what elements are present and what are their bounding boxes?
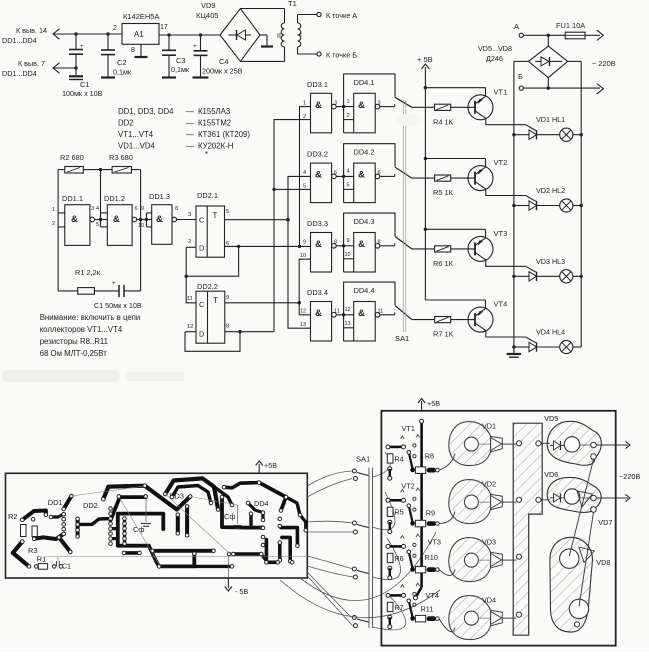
svg-text:КТ361 (КТ209): КТ361 (КТ209) — [198, 130, 250, 139]
svg-text:коллекторов VT1...VT4: коллекторов VT1...VT4 — [40, 325, 123, 334]
thin jumper wires left board — [45, 556, 306, 558]
thyristor pad VD2 pcb — [449, 480, 491, 524]
svg-text:К155ТМ2: К155ТМ2 — [198, 119, 231, 128]
wire to resistor R7 — [412, 319, 435, 321]
svg-text:R6: R6 — [394, 554, 403, 563]
wire routing box DD4.1 — [344, 74, 395, 133]
ground — [162, 76, 176, 78]
switch SA1 body lines — [368, 468, 370, 628]
pcb trace mid bus y566 ext — [194, 565, 232, 568]
pcb trace DD1 pin1 feed — [64, 496, 72, 509]
svg-text:II: II — [277, 33, 281, 40]
capacitor C2 — [106, 32, 109, 35]
wire R9 to VD2 — [439, 512, 455, 524]
pcb trace inner roof — [111, 497, 146, 520]
pcb trace DD2 right col — [123, 519, 126, 544]
svg-text:10: 10 — [345, 252, 351, 258]
capacitor C1 — [75, 34, 77, 49]
svg-text:R4 1К: R4 1К — [433, 117, 454, 126]
svg-text:C1: C1 — [80, 80, 90, 89]
svg-text:КЦ405: КЦ405 — [196, 11, 218, 20]
pcb trace Cf1 rect — [118, 514, 164, 546]
svg-text:DD4: DD4 — [254, 499, 269, 508]
wire routing box DD4.3 — [344, 213, 395, 272]
wire anode VD1 — [514, 134, 529, 136]
wire bridge right to right rail — [568, 60, 582, 62]
svg-text:R1: R1 — [37, 555, 46, 564]
wire to resistor R6 — [412, 248, 435, 250]
svg-text:VD9: VD9 — [201, 1, 216, 10]
svg-text:T: T — [213, 211, 218, 220]
wire collector VT1 — [475, 111, 486, 119]
wire DD4.4 out to switch contact — [380, 314, 395, 316]
svg-text:VD5...VD8: VD5...VD8 — [478, 44, 512, 53]
resistor R7 — [435, 317, 451, 323]
svg-text:VT4: VT4 — [426, 591, 439, 600]
svg-text:&: & — [315, 239, 322, 250]
resistor R6 — [435, 246, 451, 252]
svg-text:2: 2 — [188, 239, 191, 245]
svg-text:R8: R8 — [425, 452, 434, 461]
wire R6 to base VT3 — [451, 248, 475, 250]
wire DD4.1 out to switch contact — [380, 106, 395, 108]
interconnect wires long arcs — [280, 580, 440, 618]
wire DD3.3 out to DD4.3 — [336, 245, 354, 247]
pcb trace DD4 feed — [261, 513, 264, 520]
svg-text:С1 50мк x 10В: С1 50мк x 10В — [94, 301, 142, 310]
svg-text:0,1мк: 0,1мк — [113, 68, 132, 77]
pads VD6 — [591, 495, 597, 501]
svg-text:10: 10 — [300, 253, 306, 259]
wire gate VD1 — [526, 125, 536, 131]
svg-text:VT2: VT2 — [494, 158, 508, 167]
capacitor C4 — [199, 33, 202, 36]
svg-text:3: 3 — [188, 212, 191, 218]
svg-text:&: & — [315, 100, 322, 111]
svg-text:&: & — [315, 308, 322, 319]
wire DD2.2 Qbar out pin8 — [225, 331, 274, 333]
svg-text:SA1: SA1 — [395, 334, 409, 343]
svg-text:9: 9 — [303, 240, 306, 246]
svg-text:FU1 10А: FU1 10А — [556, 21, 585, 30]
wire gate VD4 — [526, 337, 536, 343]
svg-text:13: 13 — [345, 321, 351, 327]
svg-text:1: 1 — [347, 99, 350, 105]
switch SA1 section 1 — [395, 97, 412, 107]
wire DD2.2 Q out pin9 — [225, 302, 299, 304]
wire emitter VT2 to +5V rail — [425, 158, 485, 160]
component C1 pcb — [56, 561, 58, 566]
component R1 pcb — [38, 564, 47, 570]
svg-text:VT3: VT3 — [494, 229, 508, 238]
pads R7 — [388, 615, 392, 619]
svg-text:VT2: VT2 — [401, 482, 414, 491]
pcb trace DD4 area v3 — [278, 543, 282, 561]
svg-text:DD2: DD2 — [83, 501, 98, 510]
capacitor Cf1 symbol — [145, 499, 147, 522]
svg-text:5: 5 — [303, 184, 306, 190]
svg-text:—: — — [186, 107, 194, 116]
component R4 pcb — [387, 454, 393, 463]
diagonal wire VD5 to VD8 — [569, 459, 593, 556]
svg-text:17: 17 — [160, 24, 168, 31]
svg-text:DD1.2: DD1.2 — [104, 194, 125, 203]
wire DD2.1 feedback — [186, 246, 238, 276]
pcb trace DD1 stub — [51, 514, 64, 517]
svg-text:9: 9 — [141, 206, 144, 212]
svg-text:3: 3 — [91, 206, 94, 212]
diode VD8 symbol — [579, 547, 595, 563]
svg-text:SA1: SA1 — [356, 455, 370, 464]
wire B to mains — [523, 87, 600, 89]
wire oscillator top rail — [58, 169, 65, 171]
thyristor pad VD4 pcb — [449, 596, 491, 640]
svg-text:+: + — [80, 44, 84, 50]
svg-text:R5 1К: R5 1К — [433, 188, 454, 197]
svg-text:T: T — [213, 296, 218, 305]
capacitor C3 — [167, 33, 170, 36]
svg-text:—: — — [186, 142, 194, 151]
thyristor pad VD3 pcb — [449, 538, 491, 582]
wire winding I to point A — [297, 15, 299, 24]
svg-text:VT1...VT4: VT1...VT4 — [118, 130, 154, 139]
pcb trace mid jumper — [124, 551, 140, 555]
pcb trace DD3 vertical 2 — [185, 506, 189, 535]
svg-text:0,1мк: 0,1мк — [171, 65, 190, 74]
pcb trace DD3 M shape — [165, 478, 218, 509]
svg-text:4: 4 — [347, 169, 350, 175]
svg-text:C3: C3 — [176, 56, 186, 65]
pcb trace plus5 entry right — [259, 483, 286, 511]
svg-text:C4: C4 — [219, 57, 229, 66]
wire HL2 to right rail — [573, 205, 581, 207]
pcb trace DD4 top hook — [286, 497, 300, 515]
svg-text:R9: R9 — [426, 509, 435, 518]
wire R3 right to C1 row — [140, 170, 142, 291]
svg-text:DD1: DD1 — [48, 498, 63, 507]
wire DD2.2 feedback — [185, 332, 240, 352]
switch SA1 section 2 — [395, 167, 412, 178]
wire VD1 to heatsink — [478, 443, 490, 445]
thyristor pad VD1 pcb — [449, 422, 491, 466]
pcb trace mid bus y551 — [153, 549, 214, 553]
wire VD6 pad link — [580, 497, 591, 499]
pcb trace bottom right link — [261, 554, 267, 562]
component R7 pcb — [387, 602, 393, 611]
svg-text:VD3 HL3: VD3 HL3 — [536, 257, 565, 266]
svg-text:Т1: Т1 — [288, 0, 297, 8]
pcb trace DD1 to R3 — [34, 534, 64, 539]
svg-text:R4: R4 — [394, 454, 403, 463]
wire bridge left to left rail — [514, 60, 529, 62]
svg-text:DD3.1: DD3.1 — [307, 80, 328, 89]
wire VD6 out arrow — [596, 497, 628, 499]
svg-text:8: 8 — [131, 47, 135, 54]
svg-text:10: 10 — [138, 223, 144, 229]
pcb trace R3 to diag — [59, 537, 70, 552]
svg-text:&: & — [358, 308, 365, 319]
svg-text:R3 680: R3 680 — [109, 153, 133, 162]
wire A1 output — [159, 34, 220, 36]
wire bus to DD3.2 pin5 — [274, 188, 311, 190]
svg-text:—: — — [186, 119, 194, 128]
svg-text:VT4: VT4 — [494, 300, 508, 309]
svg-text:8: 8 — [175, 206, 178, 212]
pads R6 — [388, 566, 392, 570]
wire anode VD2 — [514, 205, 529, 207]
switch SA1 linkage — [402, 100, 404, 332]
component R5 pcb — [387, 507, 393, 516]
wire collector VT2 — [475, 182, 486, 190]
ground — [101, 76, 115, 78]
wire gate VD3 — [526, 266, 536, 272]
pcb trace DD2 stubs — [111, 527, 118, 530]
-5V arrow left board — [227, 578, 229, 588]
svg-text:DD3.3: DD3.3 — [307, 219, 328, 228]
svg-text:D: D — [199, 244, 205, 253]
svg-text:12: 12 — [187, 324, 193, 330]
pcb trace R2 top — [22, 511, 46, 520]
triangle VD2 pcb — [491, 494, 503, 509]
svg-text:R7 1К: R7 1К — [433, 330, 454, 339]
wire A to bridge top — [547, 35, 549, 46]
svg-text:- 5В: - 5В — [235, 587, 248, 596]
svg-text:C: C — [199, 216, 205, 225]
pads VD5 — [591, 442, 597, 448]
wire bus Qbar1 — [300, 107, 311, 247]
pcb board left outline — [6, 473, 308, 578]
switch SA1 contact pair — [352, 521, 356, 525]
heatsink holes — [516, 441, 521, 446]
transistor VT4 pcb leads — [409, 601, 413, 617]
svg-text:4: 4 — [303, 170, 306, 176]
lamp HL4 — [537, 346, 560, 348]
wire fuse to mains — [585, 34, 600, 36]
svg-text:R11: R11 — [421, 605, 434, 614]
svg-text:VT1: VT1 — [402, 424, 415, 433]
svg-text:+5В: +5В — [264, 461, 277, 470]
svg-text:R6 1К: R6 1К — [433, 259, 454, 268]
wire +5V top rail — [54, 33, 122, 35]
svg-text:DD4.1: DD4.1 — [354, 78, 375, 87]
+5V arrow right board — [421, 401, 423, 411]
svg-text:5: 5 — [347, 183, 350, 189]
svg-text:6: 6 — [135, 206, 138, 212]
svg-text:DD2: DD2 — [118, 119, 134, 128]
svg-text:*: * — [205, 150, 208, 159]
svg-text:R5: R5 — [394, 508, 403, 517]
svg-text:резисторы R8..R11: резисторы R8..R11 — [40, 337, 108, 346]
scan artifact band — [2, 370, 120, 382]
svg-text:VD2: VD2 — [482, 480, 496, 489]
wire R11 to VD4 — [439, 619, 455, 632]
svg-text:&: & — [358, 100, 365, 111]
svg-text:R2: R2 — [8, 512, 17, 521]
switch SA1 contact pair — [352, 469, 356, 473]
lamp HL3 — [537, 275, 560, 277]
wire to DD2.2 C — [186, 276, 196, 303]
pcb pads left board — [21, 518, 25, 522]
svg-text:~ 220В: ~ 220В — [592, 59, 616, 68]
triangle VD4 pcb — [491, 610, 503, 625]
svg-text:К точке Б: К точке Б — [326, 51, 357, 60]
wire anode VD3 — [514, 275, 529, 277]
capacitor C1 oscillator — [94, 290, 119, 292]
wire gnd rail — [54, 67, 76, 69]
wire DD1.1 out to DD1.2 — [95, 219, 108, 221]
svg-text:Сф: Сф — [133, 525, 144, 534]
wire collector VT3 — [475, 252, 486, 260]
wire VD3 to heatsink — [478, 559, 490, 561]
svg-text:9: 9 — [347, 238, 350, 244]
svg-text:+5В: +5В — [427, 399, 440, 408]
svg-text:&: & — [113, 214, 120, 225]
wire DD1.3 out to DD2.1 C — [177, 219, 196, 221]
diode VD7 symbol — [577, 491, 593, 507]
svg-text:12: 12 — [345, 307, 351, 313]
switch SA1 contact pair — [352, 567, 356, 571]
triangle VD3 pcb — [491, 552, 503, 567]
pcb trace left V zigzag — [13, 542, 29, 567]
diode pad VD5 pcb — [547, 421, 601, 465]
wire HL3 to right rail — [573, 275, 581, 277]
wire DD2.1 D input — [186, 246, 196, 248]
component jumper ch3 — [389, 545, 402, 548]
svg-text:1: 1 — [52, 207, 55, 213]
svg-text:11: 11 — [187, 296, 193, 302]
pcb trace DD3 vertical 1 — [176, 515, 180, 534]
wire DD2.1 Qbar out pin6 — [225, 245, 311, 247]
svg-text:5: 5 — [96, 222, 99, 228]
svg-text:DD3.4: DD3.4 — [307, 288, 328, 297]
diode symbol VD6 — [550, 497, 554, 499]
svg-text:DD1.3: DD1.3 — [149, 192, 170, 201]
component R2 pcb — [21, 525, 27, 537]
ground — [69, 75, 83, 77]
wire R7 to base VT4 — [451, 319, 475, 321]
svg-text:68 Ом МЛТ-0,25Вт: 68 Ом МЛТ-0,25Вт — [40, 349, 108, 358]
wire to resistor R4 — [412, 106, 435, 108]
wire anode VD4 — [514, 346, 529, 348]
svg-text:А: А — [514, 22, 519, 31]
svg-text:+: + — [112, 281, 116, 287]
lamp HL2 — [537, 205, 560, 207]
wire emitter VT1 to +5V rail — [425, 87, 485, 89]
heatsink bar pcb — [513, 423, 542, 635]
wire routing box DD4.4 — [344, 282, 395, 341]
lamp HL1 — [537, 134, 560, 136]
svg-text:C2: C2 — [117, 58, 127, 67]
svg-text:VD3: VD3 — [482, 538, 496, 547]
pcb trace DD3 right diag — [214, 487, 232, 505]
svg-text:VD1 HL1: VD1 HL1 — [536, 115, 565, 124]
wire to resistor R5 — [412, 177, 435, 179]
svg-text:К142ЕН5А: К142ЕН5А — [123, 12, 159, 21]
svg-text:Б: Б — [518, 72, 523, 81]
wire heatsink to VD6 — [541, 499, 550, 501]
switch SA1 section 4 — [395, 306, 412, 320]
wire HL4 to right rail — [573, 346, 581, 348]
wire bus Q1 — [288, 176, 311, 328]
ground — [507, 353, 521, 355]
svg-text:DD2.1: DD2.1 — [197, 191, 218, 200]
component R6 pcb — [387, 553, 393, 562]
+5V arrow left board — [258, 464, 260, 473]
svg-text:DD4.2: DD4.2 — [354, 148, 375, 157]
svg-text:VD4: VD4 — [482, 596, 496, 605]
svg-text:200мк x 25В: 200мк x 25В — [202, 67, 243, 76]
pcb trace DD4 area v4 — [266, 540, 277, 563]
pcb trace DD1 inner vertical — [76, 519, 80, 537]
svg-text:I: I — [300, 32, 302, 39]
svg-text:4: 4 — [96, 206, 99, 212]
svg-text:К155ЛА3: К155ЛА3 — [198, 107, 230, 116]
svg-text:R10: R10 — [425, 553, 438, 562]
svg-text:DD1, DD3, DD4: DD1, DD3, DD4 — [118, 107, 174, 116]
svg-text:DD4.3: DD4.3 — [354, 217, 375, 226]
wire R10 to VD3 — [439, 570, 455, 576]
svg-text:—: — — [186, 130, 194, 139]
pcb trace DD1-DD2 link — [78, 519, 111, 525]
wire bridge to transformer top — [240, 8, 284, 10]
svg-text:13: 13 — [300, 322, 306, 328]
pcb trace DD3-DD4 diag — [248, 503, 263, 513]
svg-text:2: 2 — [347, 113, 350, 119]
switch SA1 section 3 — [395, 237, 412, 249]
svg-text:К выв. 14: К выв. 14 — [16, 26, 47, 35]
svg-text:VD6: VD6 — [544, 470, 558, 479]
ground — [135, 56, 148, 58]
wire DD2.1 Q out pin5 — [225, 219, 289, 221]
pcb trace DD4 area g1 — [281, 528, 298, 546]
component R3 pcb — [32, 526, 37, 537]
pads R5 — [388, 520, 392, 524]
pcb board right outline — [381, 411, 615, 646]
pcb trace bottom right bar — [233, 552, 259, 556]
svg-text:C: C — [199, 300, 205, 309]
ground — [193, 76, 209, 78]
svg-text:&: & — [315, 170, 322, 181]
wire DD4.3 out to switch contact — [380, 245, 395, 247]
svg-text:DD1...DD4: DD1...DD4 — [2, 36, 37, 45]
pcb trace bottom center run — [149, 546, 195, 567]
triangle VD1 pcb — [491, 436, 503, 451]
ground — [261, 45, 273, 47]
wire VD4 to heatsink — [478, 617, 490, 619]
pcb trace DD4 area g2 — [282, 537, 290, 561]
svg-text:Внимание: включить в цепи: Внимание: включить в цепи — [40, 313, 141, 322]
wire bus Q2 — [299, 259, 310, 315]
wire -5V to pad — [227, 556, 229, 578]
svg-text:1: 1 — [303, 100, 306, 106]
diode symbol VD5 — [550, 444, 554, 446]
pcb trace plus5 entry left — [224, 483, 259, 488]
svg-text:5: 5 — [226, 209, 229, 215]
transistor VT1 pcb leads — [409, 452, 413, 468]
svg-text:DD3.2: DD3.2 — [307, 150, 328, 159]
svg-text:Сф: Сф — [224, 512, 235, 521]
wire DD3.1 out to DD4.1 — [336, 106, 354, 108]
svg-text:R2 680: R2 680 — [60, 153, 84, 162]
wire collector VT4 — [475, 323, 486, 331]
svg-text:R1 2,2к: R1 2,2к — [75, 268, 101, 277]
svg-text:А1: А1 — [134, 30, 144, 39]
svg-text:DD1...DD4: DD1...DD4 — [2, 69, 37, 78]
pcb trace DD3 column link — [222, 497, 262, 527]
wire A to fuse — [523, 34, 565, 36]
capacitor Cf2 symbol — [236, 505, 238, 524]
wire winding I to point B — [297, 47, 299, 54]
